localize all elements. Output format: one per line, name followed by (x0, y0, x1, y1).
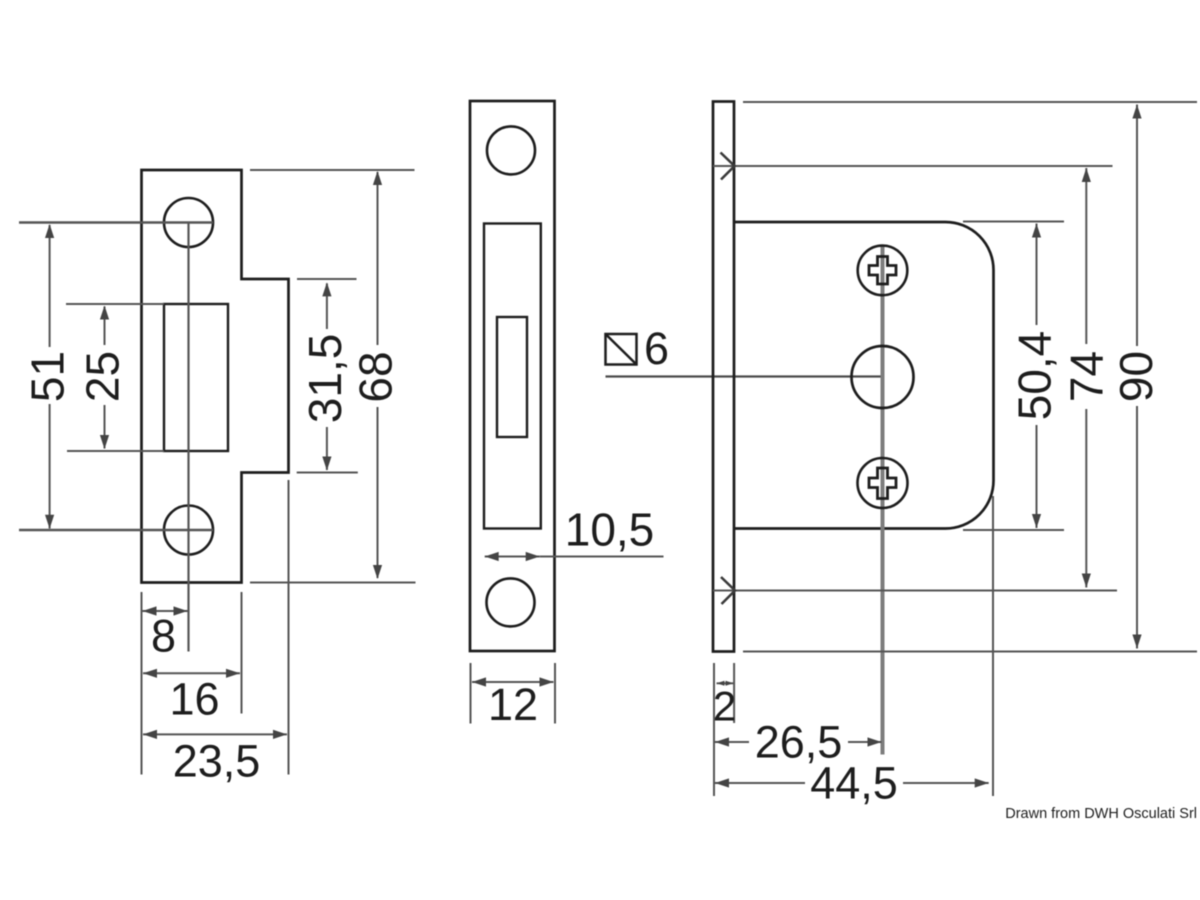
extension line: strip right below (2) (733, 663, 735, 723)
extension line: strip left below (2 / 26,5 / 44,5) (713, 663, 715, 796)
svg-text:23,5: 23,5 (173, 736, 261, 787)
rear view: bottom screw head (858, 458, 908, 508)
front view: vertical centerline (187, 223, 189, 652)
svg-text:74: 74 (1061, 351, 1113, 402)
dimension 12 line (472, 681, 554, 683)
svg-text:2: 2 (713, 683, 736, 730)
front view: bottom screw hole (164, 506, 213, 555)
svg-text:6: 6 (644, 323, 669, 374)
extension line: step right edge below (23,5) (288, 480, 290, 775)
extension line: side view right (12) (554, 663, 556, 724)
side view: recess rectangle (484, 224, 541, 529)
extension line: slot top (25) (66, 303, 164, 305)
side view: bottom hole (487, 578, 535, 626)
dimension 26,5 line (715, 741, 749, 743)
extension line: plate right edge below (16) (241, 592, 243, 714)
dimension 16 line (143, 672, 240, 674)
svg-text:Drawn from DWH Osculati Srl: Drawn from DWH Osculati Srl (1005, 806, 1197, 822)
square symbol for 6 (606, 334, 637, 365)
extension line: slot bottom (25) (67, 450, 164, 452)
svg-text:90: 90 (1110, 351, 1162, 402)
leader line from square 6 to spindle hole (606, 375, 883, 377)
extension line: plate bottom (68) (250, 582, 416, 584)
dimension 2 tiny arrows (717, 682, 734, 684)
dimension 68 line (377, 172, 379, 345)
dimension 51 line (49, 225, 51, 347)
extension line: strip top (90) (743, 101, 1197, 103)
extension line: body top (50,4) (963, 221, 1064, 223)
extension line: strip bottom (90) (743, 651, 1197, 653)
dimension 44,5 line (715, 782, 805, 784)
dimension 8 line (143, 610, 188, 612)
dimension 74 line (1085, 168, 1087, 344)
svg-text:44,5: 44,5 (810, 758, 898, 809)
extension line: top hole center (51) (19, 221, 213, 223)
extension line: body right edge below (44,5) (992, 496, 994, 796)
dimension 31,5 line (326, 283, 328, 329)
svg-text:68: 68 (350, 351, 402, 402)
svg-text:51: 51 (22, 351, 74, 402)
extension line: step bottom (31,5) (297, 472, 358, 474)
svg-text:16: 16 (169, 674, 219, 725)
svg-text:50,4: 50,4 (1009, 331, 1061, 421)
dimension 50,4 line (1036, 224, 1038, 326)
dimension 90 line (1136, 105, 1138, 347)
extension line: 74 bottom with arrow at strip (713, 590, 1117, 592)
extension line: side view left (12) (470, 663, 472, 724)
front view: top screw hole (164, 198, 213, 247)
side view: slot rectangle (497, 317, 527, 437)
svg-text:12: 12 (488, 679, 538, 730)
side view: plate outline (470, 101, 555, 651)
front view: latch slot (164, 304, 228, 451)
dimension 10,5 line with leader (485, 556, 540, 558)
dimension 25 line (104, 307, 106, 346)
extension line: body bottom (50,4) (963, 529, 1064, 531)
extension line: 74 top with arrow at strip (713, 165, 1113, 167)
rear view: edge strip outline (713, 102, 734, 652)
rear view: body outline (734, 222, 994, 529)
extension line: step top (31,5) (297, 278, 357, 280)
extension line: bottom hole center (51) (19, 529, 213, 531)
rear view: top screw head (858, 246, 908, 296)
dimension 23,5 line (143, 733, 287, 735)
svg-text:31,5: 31,5 (299, 334, 351, 424)
svg-text:25: 25 (77, 351, 129, 402)
front view: strike plate outline (142, 170, 289, 583)
svg-text:10,5: 10,5 (565, 504, 655, 556)
extension line: plate left edge below (8/16/23,5) (141, 592, 143, 775)
extension line: plate top (68) (250, 169, 415, 171)
rear view: spindle hole (852, 346, 914, 408)
svg-text:8: 8 (151, 611, 176, 662)
side view: top hole (487, 126, 535, 174)
rear view: vertical centerline (881, 246, 885, 755)
